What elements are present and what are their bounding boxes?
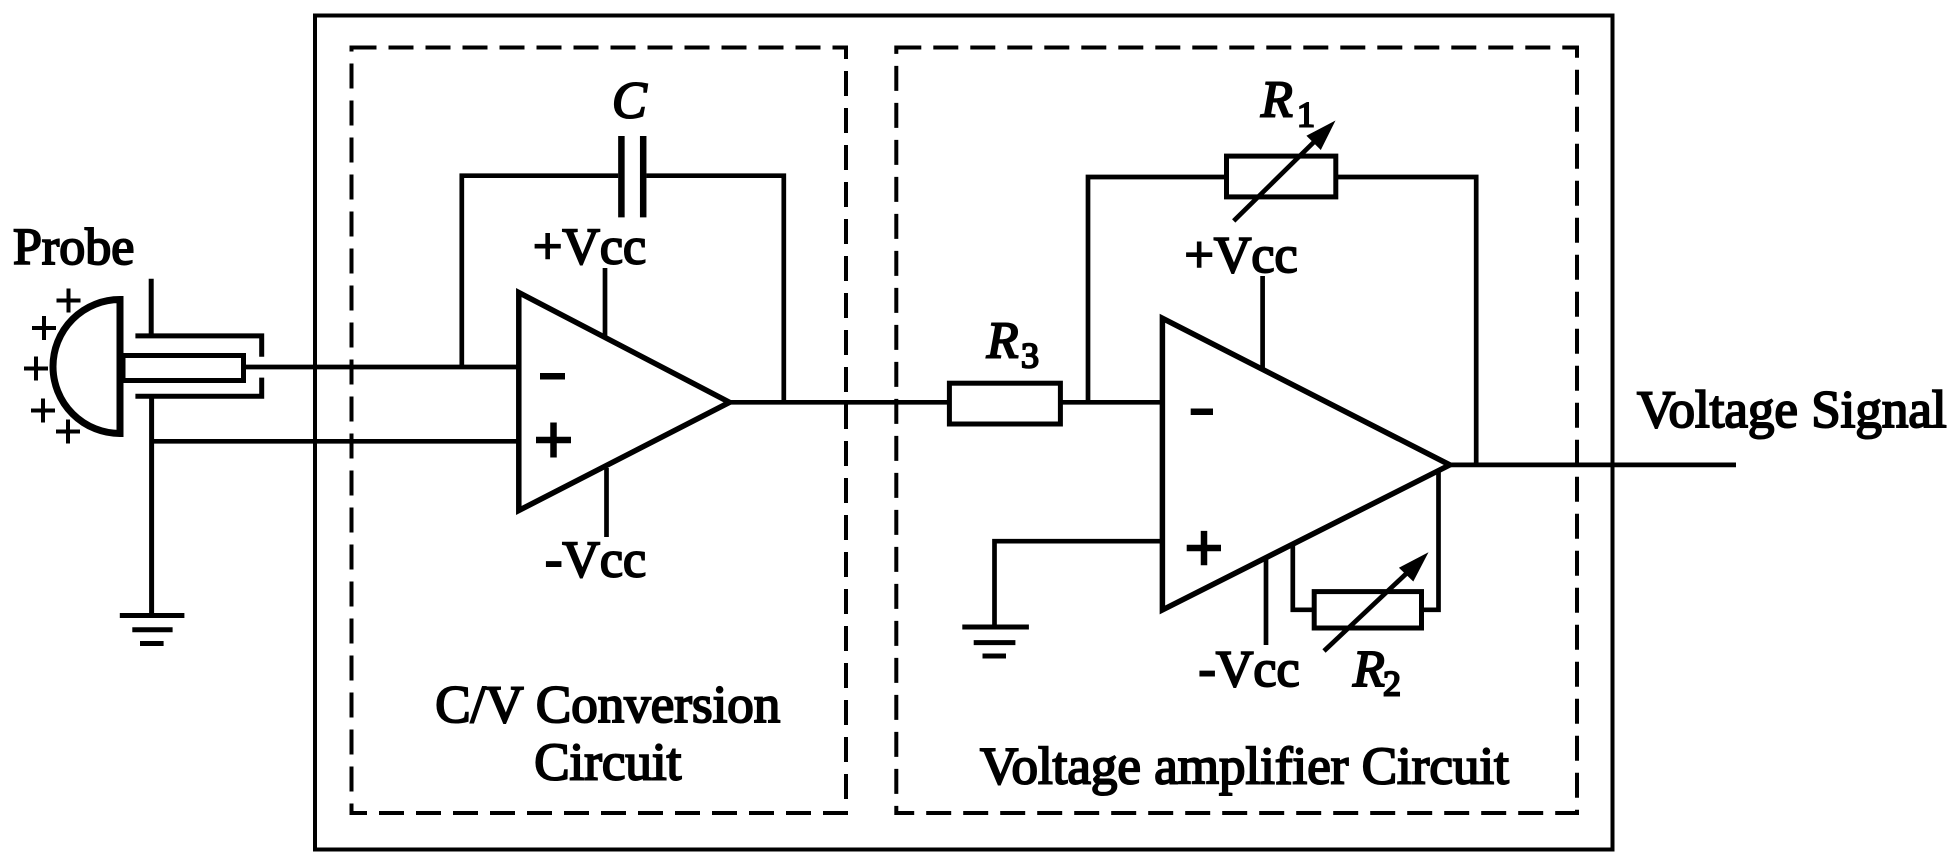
svg-text:R: R: [1260, 72, 1293, 129]
ground (probe shield): [120, 616, 185, 644]
probe shield bottom: [135, 378, 261, 397]
svg-text:Probe: Probe: [13, 219, 134, 276]
svg-text:C/V Conversion: C/V Conversion: [435, 676, 780, 734]
svg-text:2: 2: [1383, 664, 1401, 704]
probe shield top: [135, 336, 261, 357]
C/V conversion dashed box: [352, 48, 847, 814]
wire -Vcc U2: [1264, 557, 1269, 645]
U2 non-inverting input sign: [1187, 531, 1221, 565]
charge plus sign 4: [31, 399, 55, 423]
wire feedback right leg U2: [1336, 177, 1476, 465]
wire -Vcc U1: [604, 468, 609, 537]
wire shield to ground: [149, 396, 154, 616]
resistor R2 (variable): [1314, 592, 1421, 628]
svg-text:3: 3: [1021, 336, 1039, 376]
svg-text:Voltage amplifier Circuit: Voltage amplifier Circuit: [980, 738, 1509, 796]
wire +Vcc U1: [603, 268, 608, 336]
R1 arrow: [1234, 140, 1316, 221]
charge plus sign 1: [57, 289, 81, 313]
svg-text:R: R: [986, 313, 1019, 370]
svg-text:Voltage Signal: Voltage Signal: [1637, 381, 1947, 439]
svg-text:C: C: [612, 73, 648, 130]
capacitor C: [621, 136, 643, 217]
wire +Vcc U2: [1260, 276, 1265, 370]
svg-text:Circuit: Circuit: [534, 734, 681, 792]
svg-text:-Vcc: -Vcc: [1199, 641, 1300, 698]
resistor R1 (variable): [1227, 156, 1336, 197]
wire shield to non-inverting input: [152, 439, 519, 444]
svg-text:-Vcc: -Vcc: [545, 532, 646, 589]
svg-text:1: 1: [1297, 95, 1315, 135]
R2 arrow: [1324, 572, 1408, 651]
charge plus sign 5: [56, 420, 80, 444]
outer border frame: [315, 16, 1613, 850]
wire R2 left leg: [1293, 546, 1314, 610]
voltage amplifier dashed box: [896, 48, 1577, 814]
wire feedback right (top and vertical): [647, 176, 784, 403]
wire shield top stub: [149, 279, 154, 336]
svg-text:+Vcc: +Vcc: [1185, 227, 1298, 284]
wire R3 to inverting input U2: [1060, 400, 1162, 405]
ground (U2 non-inverting): [962, 627, 1029, 656]
svg-text:+Vcc: +Vcc: [533, 219, 646, 276]
charge plus sign 2: [32, 316, 56, 340]
wire non-inverting input U2 to ground: [995, 541, 1163, 627]
resistor R3: [949, 383, 1060, 424]
wire feedback left (top and vertical): [462, 176, 618, 367]
wire feedback left leg U2: [1088, 177, 1227, 402]
op-amp U2: [1162, 318, 1449, 610]
probe sensor head (half disc): [53, 300, 120, 434]
op-amp U1: [519, 293, 730, 511]
wire U1 output to R3: [730, 400, 950, 405]
U1 non-inverting input sign: [536, 423, 571, 458]
wire U2 output: [1450, 463, 1736, 468]
wire R2 right leg: [1422, 471, 1439, 610]
charge plus sign 3: [24, 357, 48, 381]
svg-text:R: R: [1352, 641, 1385, 698]
U1 inverting input sign: [540, 373, 565, 380]
probe rod (inner electrode): [123, 356, 244, 381]
U2 inverting input sign: [1191, 408, 1213, 415]
wire probe rod to inverting input: [244, 365, 519, 370]
